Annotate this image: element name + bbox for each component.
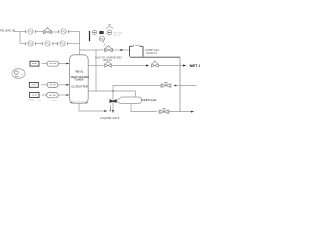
arrow right — [104, 110, 107, 112]
valve V7 — [159, 109, 169, 114]
svg-text:DRUM 03: DRUM 03 — [146, 52, 157, 55]
wire bottom row start — [20, 43, 26, 45]
svg-text:PC: PC — [100, 38, 104, 41]
KO drum box — [130, 45, 144, 57]
arrow down liquid out — [112, 110, 114, 113]
wire to arrow out — [169, 111, 191, 113]
wire riser to y85 — [113, 86, 161, 92]
wire with arrow to column — [58, 84, 67, 86]
feed tag box R2 — [29, 82, 38, 87]
exchanger E5 — [58, 41, 68, 46]
wire dark y57 — [130, 56, 180, 58]
wire — [42, 63, 48, 65]
node tee to column top — [79, 50, 81, 55]
node junction dot — [112, 90, 114, 92]
wire drum bottoms — [131, 104, 157, 112]
control valve V3 — [105, 60, 112, 67]
stream oval S1 — [47, 61, 59, 66]
instrument bubble FC — [100, 36, 105, 41]
relief valve hat — [106, 27, 113, 29]
svg-text:REBOILER: REBOILER — [142, 98, 157, 102]
control valve V2 — [104, 45, 112, 52]
wire — [35, 43, 42, 45]
control valve V1 — [43, 27, 51, 34]
wire bottoms y91 — [88, 90, 135, 92]
pump circle icon — [12, 69, 25, 79]
wire with arrow to column — [58, 94, 67, 96]
wire to edge with arrow — [159, 65, 183, 67]
wire vertical x80 — [79, 32, 81, 51]
svg-text:LIQUID OUT: LIQUID OUT — [100, 116, 119, 120]
wire overhead y65 — [88, 65, 103, 67]
wire valve drop x113 — [112, 91, 114, 110]
feed tag box R1 — [30, 61, 39, 66]
wire — [35, 31, 43, 33]
svg-text:NET G: NET G — [190, 63, 201, 68]
column C1 — [70, 55, 89, 103]
instrument stem dark — [89, 31, 91, 41]
valve V6 dark — [110, 100, 116, 103]
exchanger E3 — [26, 41, 36, 46]
exchanger E4 — [42, 41, 53, 46]
arrow into drum box — [121, 49, 124, 51]
arrow — [175, 85, 178, 87]
wire — [42, 94, 47, 96]
wire — [112, 65, 146, 67]
svg-text:C2 SPLITTER: C2 SPLITTER — [71, 84, 88, 88]
wire — [113, 49, 121, 51]
wire vertical x96 — [95, 50, 97, 91]
wire drum feed — [135, 91, 137, 97]
valve V5 — [161, 83, 171, 88]
wire column bottoms — [79, 103, 104, 111]
node dot — [109, 106, 111, 111]
node split top-left — [19, 32, 21, 44]
signal dashes — [103, 42, 105, 47]
wire bottom row to downcomer — [68, 43, 80, 45]
exchanger E2 — [59, 29, 69, 34]
stream oval S2 — [47, 82, 58, 87]
wire with arrow to column — [59, 63, 67, 65]
svg-text:FD GAS IN: FD GAS IN — [0, 28, 15, 32]
wire top row to downcomer — [68, 31, 79, 33]
svg-text:ME-01: ME-01 — [75, 70, 83, 74]
wire vertical x180 — [179, 57, 181, 111]
wire — [52, 31, 59, 33]
wire y85 to right edge — [178, 85, 197, 87]
arrow on line — [146, 65, 149, 67]
instrument row circle B — [107, 30, 112, 35]
wire feed line — [14, 31, 27, 33]
faint note marks — [28, 99, 56, 101]
wire bypass line y50 — [80, 49, 104, 51]
svg-text:TOWER: TOWER — [74, 79, 83, 82]
wire — [53, 43, 58, 45]
instrument row block — [99, 31, 103, 34]
exchanger E1 — [26, 29, 36, 34]
feed tag box R3 — [30, 93, 39, 98]
stream oval S3 — [47, 93, 59, 98]
svg-text:SET 42: SET 42 — [114, 35, 122, 37]
wire — [41, 84, 47, 86]
reboiler drum — [116, 97, 142, 104]
control valve V4 — [152, 60, 159, 67]
instrument row circle A — [92, 30, 96, 34]
